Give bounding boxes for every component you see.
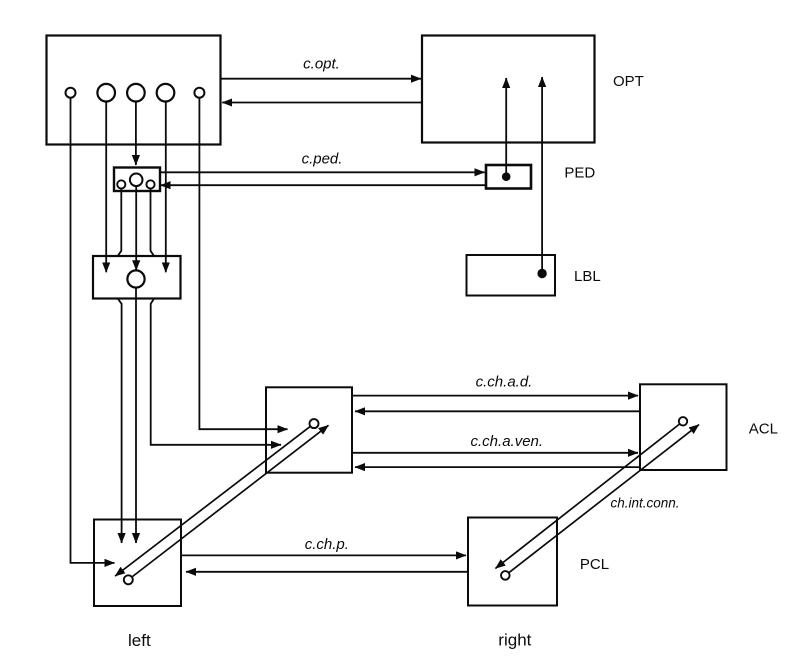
distributor circle — [127, 270, 144, 287]
wire c.ped. forward — [160, 171, 485, 173]
wire c.opt. forward — [221, 78, 421, 80]
box: left ACL unit — [266, 387, 352, 472]
ACL circle — [679, 417, 687, 425]
coupler large circle — [130, 174, 143, 187]
wire distributor to left PCL unit — [135, 288, 137, 543]
svg-text:ACL: ACL — [749, 420, 778, 437]
svg-text:OPT: OPT — [613, 73, 644, 90]
wire coupler left bypass to left PCL unit — [118, 189, 122, 544]
port circle 4 (large) — [157, 84, 175, 102]
wire c.ch.a.d. return — [355, 410, 640, 412]
left ACL circle — [310, 419, 319, 428]
box: PCL — [468, 518, 557, 606]
wire PED to OPT — [505, 78, 507, 177]
box: PED — [486, 165, 531, 189]
wire c.ch.p. return — [186, 571, 468, 573]
port circle 3 (large) — [127, 84, 145, 102]
svg-text:c.ch.a.ven.: c.ch.a.ven. — [471, 433, 544, 450]
wire left diagonal up — [132, 425, 329, 577]
wire c.ch.a.ven. forward — [352, 452, 638, 454]
port circle 5 (small) — [194, 88, 204, 98]
wire left diagonal down — [115, 426, 310, 576]
box: ACL — [640, 384, 727, 470]
PCL circle — [501, 571, 510, 580]
wire LBL to OPT — [541, 77, 543, 274]
wire port3 to coupler — [135, 102, 137, 166]
svg-text:left: left — [128, 631, 151, 650]
wire coupler right bypass to left ACL unit — [151, 189, 282, 445]
svg-text:c.ped.: c.ped. — [302, 151, 343, 168]
wire right diagonal up ch.int.conn. — [509, 425, 699, 573]
LBL junction dot — [537, 269, 546, 278]
wire port5 to left ACL unit — [199, 98, 287, 430]
box: top-left unit with 5 ports — [47, 36, 221, 145]
wire port1 to left PCL unit — [71, 98, 115, 563]
svg-text:LBL: LBL — [574, 268, 601, 285]
svg-text:right: right — [498, 631, 531, 650]
wire coupler center to distributor — [135, 186, 137, 270]
svg-text:PCL: PCL — [580, 556, 609, 573]
coupler small circle left — [117, 180, 125, 188]
svg-text:c.opt.: c.opt. — [303, 55, 340, 72]
left PCL circle — [124, 575, 133, 584]
box: OPT — [422, 36, 595, 143]
wire c.ch.p. forward — [181, 554, 466, 556]
wire right diagonal down — [495, 424, 679, 569]
port circle 2 (large) — [97, 84, 115, 102]
box: 3-port coupler — [114, 168, 160, 192]
svg-text:c.ch.a.d.: c.ch.a.d. — [476, 374, 533, 391]
port circle 1 (small) — [66, 88, 76, 98]
PED junction dot — [502, 172, 511, 181]
wire c.opt. return — [222, 102, 422, 104]
svg-text:ch.int.conn.: ch.int.conn. — [611, 495, 680, 510]
wire c.ch.a.ven. return — [355, 466, 640, 468]
box: left PCL unit — [94, 520, 181, 607]
svg-text:PED: PED — [564, 164, 595, 181]
wire port2 to distributor — [105, 102, 107, 273]
box: one-circle distributor — [93, 256, 181, 299]
wire c.ped. return — [161, 184, 487, 186]
wire port4 to distributor — [165, 102, 167, 273]
svg-text:c.ch.p.: c.ch.p. — [305, 536, 349, 553]
wire c.ch.a.d. forward — [352, 395, 638, 397]
coupler small circle right — [146, 180, 154, 188]
box: LBL — [467, 255, 556, 296]
